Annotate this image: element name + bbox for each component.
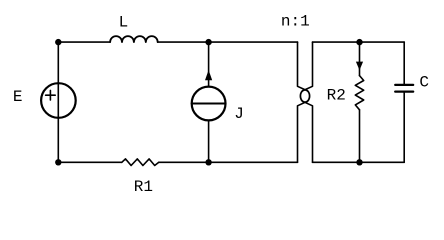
voltage source E circle xyxy=(41,83,76,118)
resistor R2 zigzag xyxy=(355,76,363,110)
svg-text:J: J xyxy=(234,105,244,123)
capacitor C top plate xyxy=(395,84,413,86)
transformer primary bottom lead (crosses over) xyxy=(298,101,308,162)
resistor R1 zigzag xyxy=(122,159,159,166)
transformer loop xyxy=(300,90,309,102)
junction node top R2 xyxy=(356,39,362,45)
junction node top-left xyxy=(55,39,61,45)
inductor L xyxy=(110,36,158,42)
transformer secondary top lead (crosses over) xyxy=(302,42,312,91)
svg-text:E: E xyxy=(13,88,23,106)
junction node bottom J xyxy=(205,159,211,165)
wire bottom rail middle segment xyxy=(159,161,298,163)
wire left branch vertical (through E) xyxy=(57,42,59,162)
svg-text:R1: R1 xyxy=(134,178,153,196)
wire bottom rail right segment xyxy=(313,161,405,163)
wire R2 branch lower xyxy=(359,110,361,163)
wire bottom rail left segment xyxy=(58,161,122,163)
current source J circle xyxy=(192,87,226,121)
transformer primary top lead (crosses over) xyxy=(298,42,308,91)
junction node bottom R2 xyxy=(356,159,362,165)
arrow above R2 (pointing down) xyxy=(356,62,363,71)
arrow of current source J (pointing up) xyxy=(205,70,212,80)
current source J diameter line xyxy=(192,103,226,105)
transformer secondary bottom lead (crosses over) xyxy=(302,101,312,162)
svg-text:L: L xyxy=(119,14,129,32)
wire C branch lower xyxy=(403,93,405,163)
junction node bottom-left xyxy=(55,159,61,165)
plus sign of E xyxy=(46,90,56,100)
wire top rail left segment xyxy=(58,41,110,43)
wire C branch upper xyxy=(403,42,405,84)
wire top rail middle segment xyxy=(158,41,298,43)
svg-text:C: C xyxy=(419,73,429,91)
svg-text:R2: R2 xyxy=(327,87,346,105)
capacitor C bottom plate xyxy=(395,90,413,92)
junction node top J xyxy=(205,39,211,45)
wire top rail right segment xyxy=(313,41,405,43)
wire R2 branch upper xyxy=(359,42,361,76)
svg-text:n:1: n:1 xyxy=(281,13,310,31)
wire J branch lower xyxy=(208,120,210,162)
wire J branch upper xyxy=(208,42,210,87)
